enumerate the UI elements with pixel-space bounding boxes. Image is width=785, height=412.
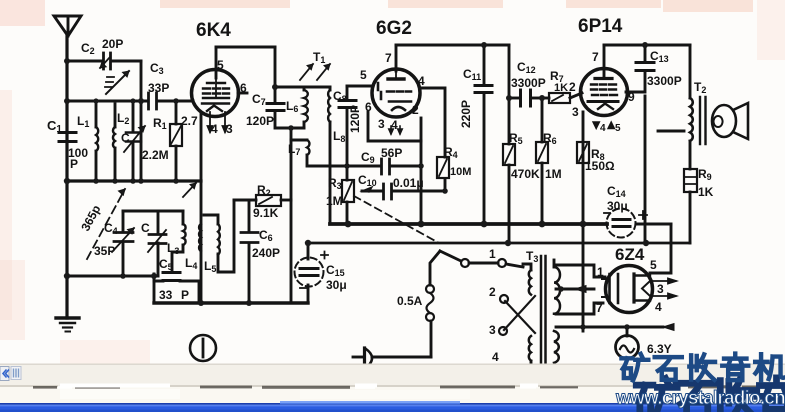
svg-text:4: 4 <box>418 74 425 88</box>
svg-text:1M: 1M <box>326 194 343 208</box>
svg-text:7: 7 <box>592 50 599 64</box>
svg-text:3: 3 <box>572 105 579 119</box>
svg-text:www.crystalradio.cn: www.crystalradio.cn <box>615 388 785 409</box>
svg-text:30μ: 30μ <box>607 199 628 213</box>
svg-text:7: 7 <box>385 51 392 65</box>
svg-text:10M: 10M <box>450 166 471 178</box>
svg-text:1M: 1M <box>545 167 562 181</box>
svg-text:4: 4 <box>655 300 662 314</box>
svg-text:6G2: 6G2 <box>376 18 412 39</box>
svg-text:2: 2 <box>412 103 419 117</box>
svg-text:5: 5 <box>615 123 621 134</box>
svg-text:5: 5 <box>650 258 657 272</box>
svg-text:120P: 120P <box>246 114 274 128</box>
svg-text:6P14: 6P14 <box>578 16 623 37</box>
svg-text:3300P: 3300P <box>511 76 546 90</box>
svg-text:6: 6 <box>240 81 247 95</box>
svg-text:3: 3 <box>378 117 385 131</box>
svg-text:4: 4 <box>600 123 606 134</box>
svg-text:2.2M: 2.2M <box>142 148 169 162</box>
svg-text:2: 2 <box>489 285 496 299</box>
svg-text:3: 3 <box>226 122 233 136</box>
svg-text:7: 7 <box>596 301 603 315</box>
svg-text:5: 5 <box>360 68 367 82</box>
svg-text:120P: 120P <box>348 105 362 133</box>
svg-text:1K: 1K <box>698 185 714 199</box>
svg-text:220P: 220P <box>459 100 473 128</box>
svg-text:C: C <box>121 131 130 145</box>
svg-text:1K: 1K <box>554 82 568 94</box>
svg-text:6K4: 6K4 <box>196 20 231 41</box>
svg-text:33: 33 <box>159 288 173 302</box>
svg-text:9: 9 <box>628 90 635 104</box>
svg-text:56P: 56P <box>381 146 402 160</box>
svg-text:33P: 33P <box>148 81 169 95</box>
svg-text:3300P: 3300P <box>647 74 682 88</box>
svg-text:P: P <box>70 157 78 171</box>
svg-text:2: 2 <box>569 80 576 94</box>
svg-text:470K: 470K <box>511 167 540 181</box>
svg-text:P: P <box>181 288 189 302</box>
svg-text:30μ: 30μ <box>326 278 347 292</box>
svg-text:4: 4 <box>211 122 218 136</box>
svg-text:3: 3 <box>489 323 496 337</box>
svg-text:4: 4 <box>492 350 499 364</box>
svg-text:1: 1 <box>597 265 604 279</box>
svg-text:4: 4 <box>391 118 398 132</box>
svg-text:9.1K: 9.1K <box>253 206 279 220</box>
svg-text:6Z4: 6Z4 <box>615 245 645 264</box>
svg-text:240P: 240P <box>252 246 280 260</box>
svg-text:0.01μ: 0.01μ <box>393 176 424 190</box>
svg-text:2.7: 2.7 <box>181 114 198 128</box>
svg-text:5: 5 <box>217 58 224 72</box>
svg-text:C: C <box>141 221 150 235</box>
svg-text:6: 6 <box>365 100 372 114</box>
svg-text:0.5A: 0.5A <box>397 294 423 308</box>
svg-text:150Ω: 150Ω <box>585 159 615 173</box>
svg-text:6.3Y: 6.3Y <box>647 342 672 356</box>
svg-text:20P: 20P <box>102 37 123 51</box>
svg-text:1: 1 <box>489 247 496 261</box>
svg-text:3: 3 <box>657 282 664 296</box>
svg-text:35P: 35P <box>94 244 115 258</box>
